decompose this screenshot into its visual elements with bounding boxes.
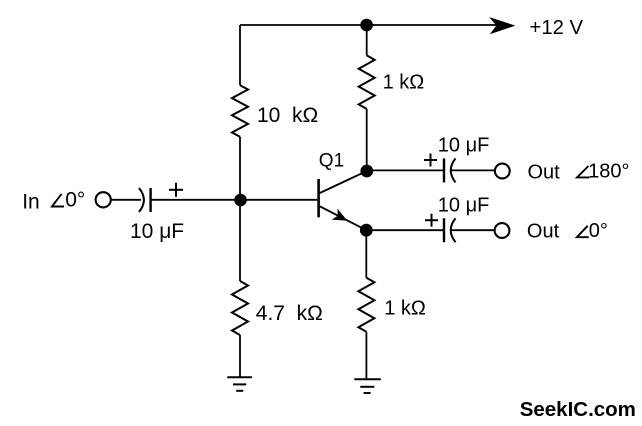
svg-text:0°: 0°	[65, 189, 85, 212]
svg-text:1 kΩ: 1 kΩ	[383, 71, 425, 93]
svg-text:10 kΩ: 10 kΩ	[257, 104, 318, 127]
svg-text:10 μF: 10 μF	[438, 195, 490, 217]
svg-text:Out: Out	[528, 162, 561, 184]
svg-text:10 μF: 10 μF	[438, 135, 490, 157]
svg-text:Out: Out	[527, 220, 560, 242]
svg-text:4.7 kΩ: 4.7 kΩ	[256, 302, 323, 325]
svg-text:+12 V: +12 V	[530, 17, 584, 39]
svg-text:1 kΩ: 1 kΩ	[384, 298, 426, 320]
svg-text:10 μF: 10 μF	[130, 220, 184, 243]
svg-text:SeekIC.com: SeekIC.com	[520, 398, 636, 421]
svg-text:In: In	[22, 191, 40, 214]
svg-text:180°: 180°	[588, 160, 629, 182]
svg-text:Q1: Q1	[319, 150, 344, 171]
svg-text:0°: 0°	[589, 220, 608, 242]
